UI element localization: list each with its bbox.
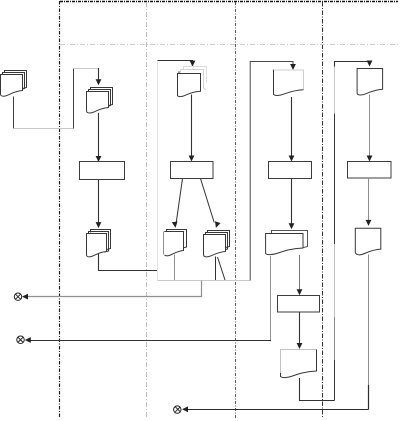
document D7 col4 top [274,70,304,96]
wire+arrow P1 to col2 lower doc [98,180,100,223]
offpage reference X3 [174,406,181,413]
lane border left [59,1,61,418]
process P4 col4 lower [278,296,320,313]
wire+arrow col4 wide doc to process P4 [299,255,301,290]
wire+arrow P4 to col4 bottom doc [299,312,301,344]
process P5 col5 [348,162,392,179]
wire+arrow diagonal P2 to col3 right doc [201,179,215,223]
wire+arrow to offpage X3 [188,409,369,411]
wire gray elbow to offpage X1 [28,281,202,297]
wire+arrow col4 doc to process P3 [291,97,293,156]
wire: elbow right into col2 (light) [74,68,99,70]
wire: col1 elbow right (light) [14,128,74,130]
lane border top [60,1,398,3]
wire+arrow to offpage X2 [30,340,271,342]
wire elbow into col5 top doc [335,62,370,63]
multi-document D1 col1 [1,71,27,97]
wire col5 lower doc down (gray then dark) [368,255,370,386]
process P3 col4 [269,162,312,179]
document D8 col4 wide (2 pages) [266,231,308,255]
wire+arrow col3 doc to process P2 [191,95,193,157]
offpage reference X1 [14,293,21,300]
wire long vertical to col4 top [250,62,293,281]
wire faint long vertical col3 [157,62,159,281]
wire col4 wide doc left output (gray) [270,256,272,340]
process P1 col2 [80,162,125,180]
wire elbow into col3 top doc [158,60,193,63]
wire+arrow col5 doc to process P5 (gray) [369,95,371,157]
lane separator 2 [235,2,237,418]
wire+arrow P3 to col4 wide doc [291,179,293,224]
band separator horizontal [60,44,398,46]
wire long vertical col5 (banded colors) [334,61,336,67]
process P2 col3 [171,162,214,179]
multi-document D5 col3 lower-left [164,230,187,256]
document D9 col4 bottom [281,350,317,378]
document D11 col5 lower [355,228,381,255]
multi-document D6 col3 lower-right [204,231,230,257]
wire+arrow P5 to col5 lower doc (gray) [368,178,370,220]
wire col4 bottom doc U to col5 top [300,378,335,401]
wire col3 right doc down [215,257,217,281]
offpage reference X2 [17,336,25,344]
wire: col1 doc down [13,97,15,129]
multi-document D3 col2 lower [87,230,111,257]
wire light horizontal junction [158,280,251,282]
wire col3 left doc down (gray) [174,255,176,281]
wire+arrow into col2 top doc [98,68,100,80]
multi-document D2 col2 top [87,88,113,113]
wire col3 right doc diagonal [218,257,226,280]
wire: col1 elbow up [73,69,75,129]
document D10 col5 top [357,69,383,96]
lane separator 3 [322,2,324,418]
multi-document D4 col3 top (light back pages) [178,67,207,97]
wire+arrow col2 doc to process P1 [98,113,100,157]
wire col2 lower doc elbow down-right [99,254,159,271]
wire+arrow diagonal P2 to col3 left doc [176,179,182,223]
lane separator 1 [146,2,148,418]
